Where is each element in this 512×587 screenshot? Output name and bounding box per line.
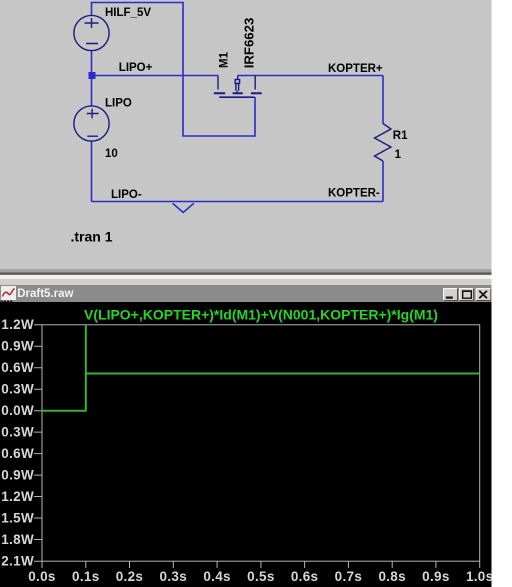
svg-text:0.3W: 0.3W — [1, 382, 34, 397]
svg-text:V(LIPO+,KOPTER+)*Id(M1)+V(N001: V(LIPO+,KOPTER+)*Id(M1)+V(N001,KOPTER+)*… — [84, 307, 438, 323]
svg-text:1.5W: 1.5W — [1, 510, 34, 525]
svg-text:Draft5.raw: Draft5.raw — [17, 288, 73, 300]
svg-text:10: 10 — [105, 148, 118, 160]
svg-text:0.8s: 0.8s — [378, 569, 405, 584]
svg-text:KOPTER-: KOPTER- — [328, 188, 380, 200]
svg-text:KOPTER+: KOPTER+ — [328, 63, 383, 75]
svg-text:R1: R1 — [393, 130, 408, 142]
svg-text:.tran 1: .tran 1 — [71, 229, 113, 245]
svg-text:0.7s: 0.7s — [335, 569, 362, 584]
svg-text:1.0s: 1.0s — [466, 569, 493, 584]
svg-text:0.5s: 0.5s — [247, 569, 274, 584]
svg-text:0.4s: 0.4s — [203, 569, 230, 584]
svg-text:2.1W: 2.1W — [1, 554, 34, 569]
svg-text:0.0W: 0.0W — [1, 403, 34, 418]
svg-text:IRF6623: IRF6623 — [242, 18, 257, 69]
svg-text:1: 1 — [395, 149, 402, 161]
svg-text:1.8W: 1.8W — [1, 532, 34, 547]
svg-text:1.2W: 1.2W — [1, 317, 34, 332]
svg-text:0.6s: 0.6s — [291, 569, 318, 584]
svg-text:0.2s: 0.2s — [116, 569, 143, 584]
svg-text:LIPO-: LIPO- — [111, 189, 142, 201]
svg-text:0.0s: 0.0s — [28, 569, 55, 584]
svg-text:0.6W: 0.6W — [1, 360, 34, 375]
svg-text:0.9W: 0.9W — [1, 339, 34, 354]
svg-text:M1: M1 — [219, 51, 231, 68]
svg-text:HILF_5V: HILF_5V — [105, 7, 151, 19]
svg-text:0.3s: 0.3s — [160, 569, 187, 584]
svg-text:LIPO+: LIPO+ — [119, 62, 153, 74]
svg-text:1.2W: 1.2W — [1, 489, 34, 504]
svg-text:0.9W: 0.9W — [1, 468, 34, 483]
svg-text:0.1s: 0.1s — [72, 569, 99, 584]
svg-text:LIPO: LIPO — [105, 98, 132, 110]
svg-text:0.3W: 0.3W — [1, 425, 34, 440]
svg-text:0.9s: 0.9s — [422, 569, 449, 584]
svg-text:0.6W: 0.6W — [1, 446, 34, 461]
